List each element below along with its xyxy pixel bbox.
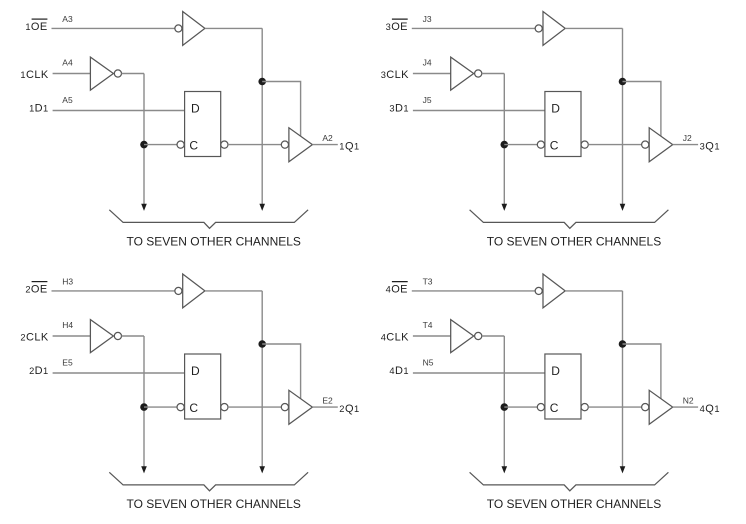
C input bubble <box>177 141 184 148</box>
C input bubble <box>537 141 544 148</box>
wire CLK junction to C input <box>144 144 177 146</box>
CLK inverter output bubble <box>114 332 121 339</box>
output buffer input bubble <box>642 404 649 411</box>
wire enable to output buffer <box>262 82 300 138</box>
svg-text:E5: E5 <box>62 357 73 367</box>
brace to seven other channels <box>470 472 669 491</box>
OE buffer (inverting input) <box>183 12 205 46</box>
svg-text:4Q1: 4Q1 <box>700 403 720 415</box>
output buffer (three-state) <box>649 390 673 424</box>
wire CLK inverter output <box>482 335 505 337</box>
svg-text:3D1: 3D1 <box>389 103 409 115</box>
wire CLK vertical bus <box>143 336 145 468</box>
wire flip-flop output to output buffer <box>228 144 281 146</box>
svg-text:1D1: 1D1 <box>29 103 49 115</box>
wire OE vertical bus <box>261 291 263 468</box>
svg-text:D: D <box>551 364 560 378</box>
CLK inverter output bubble <box>114 70 121 77</box>
CLK inverter output bubble <box>475 70 482 77</box>
arrowhead CLK bus to other channels <box>141 466 147 473</box>
flip-flop output bubble <box>221 141 228 148</box>
wire CLK junction to C input <box>504 144 537 146</box>
svg-text:T4: T4 <box>423 320 433 330</box>
svg-text:J3: J3 <box>423 14 432 24</box>
svg-text:C: C <box>189 139 198 153</box>
wire 2D1 input to D latch <box>53 372 185 374</box>
junction dot CLK/C input <box>140 141 148 149</box>
svg-text:TO SEVEN OTHER CHANNELS: TO SEVEN OTHER CHANNELS <box>487 497 661 511</box>
svg-text:TO SEVEN OTHER CHANNELS: TO SEVEN OTHER CHANNELS <box>126 497 300 511</box>
wire CLK junction to C input <box>144 406 177 408</box>
svg-text:2D1: 2D1 <box>29 365 49 377</box>
overbar on 3OE <box>392 18 408 20</box>
arrowhead OE bus to other channels <box>620 466 626 473</box>
wire enable to output buffer <box>623 344 661 400</box>
wire 4CLK input <box>413 335 451 337</box>
arrowhead OE bus to other channels <box>259 466 265 473</box>
wire CLK vertical bus <box>503 336 505 468</box>
svg-text:C: C <box>550 139 559 153</box>
flip-flop output bubble <box>581 141 588 148</box>
arrowhead CLK bus to other channels <box>502 466 508 473</box>
CLK inverter <box>451 57 474 90</box>
svg-text:2CLK: 2CLK <box>20 332 48 344</box>
wire flip-flop output to output buffer <box>588 406 641 408</box>
arrowhead CLK bus to other channels <box>141 204 147 211</box>
svg-text:H3: H3 <box>62 277 73 287</box>
junction dot CLK/C input <box>501 141 509 149</box>
junction dot CLK/C input <box>140 403 148 411</box>
junction dot OE/enable <box>258 78 266 86</box>
wire OE buffer output <box>565 290 622 292</box>
wire enable to output buffer <box>262 344 300 400</box>
svg-text:A2: A2 <box>322 133 333 143</box>
OE buffer input bubble <box>535 287 542 294</box>
wire OE buffer output <box>205 27 262 29</box>
svg-text:J4: J4 <box>423 58 432 68</box>
OE buffer (inverting input) <box>543 12 565 46</box>
wire OE buffer output <box>205 290 262 292</box>
wire 3D1 input to D latch <box>413 110 545 112</box>
wire 1OE input <box>52 27 175 29</box>
wire CLK junction to C input <box>504 406 537 408</box>
wire 1CLK input <box>53 73 91 75</box>
wire 4OE input <box>412 290 535 292</box>
arrowhead CLK bus to other channels <box>502 204 508 211</box>
svg-text:D: D <box>551 102 560 116</box>
svg-text:J2: J2 <box>683 133 692 143</box>
svg-text:1OE: 1OE <box>25 21 47 33</box>
svg-text:4OE: 4OE <box>386 284 408 296</box>
output buffer (three-state) <box>289 128 313 162</box>
CLK inverter <box>451 320 474 353</box>
svg-text:TO SEVEN OTHER CHANNELS: TO SEVEN OTHER CHANNELS <box>126 235 300 249</box>
svg-text:E2: E2 <box>322 396 333 406</box>
svg-text:3OE: 3OE <box>386 21 408 33</box>
D flip-flop body <box>545 92 581 157</box>
output buffer (three-state) <box>289 390 313 424</box>
OE buffer (inverting input) <box>183 274 205 308</box>
wire OE vertical bus <box>261 28 263 205</box>
arrowhead OE bus to other channels <box>620 204 626 211</box>
wire 2OE input <box>52 290 175 292</box>
brace to seven other channels <box>470 210 669 229</box>
wire CLK inverter output <box>122 335 145 337</box>
flip-flop output bubble <box>581 404 588 411</box>
wire CLK inverter output <box>122 73 145 75</box>
svg-text:A5: A5 <box>62 95 73 105</box>
svg-text:2Q1: 2Q1 <box>339 403 359 415</box>
wire CLK vertical bus <box>143 74 145 206</box>
output buffer (three-state) <box>649 128 673 162</box>
D flip-flop body <box>185 354 221 419</box>
wire flip-flop output to output buffer <box>228 406 281 408</box>
CLK inverter <box>90 57 113 90</box>
wire CLK vertical bus <box>503 74 505 206</box>
OE buffer input bubble <box>175 287 182 294</box>
output buffer input bubble <box>281 141 288 148</box>
svg-text:A4: A4 <box>62 58 73 68</box>
wire flip-flop output to output buffer <box>588 144 641 146</box>
svg-text:T3: T3 <box>423 277 433 287</box>
arrowhead OE bus to other channels <box>259 204 265 211</box>
brace to seven other channels <box>109 210 308 229</box>
C input bubble <box>537 404 544 411</box>
wire OE vertical bus <box>622 28 624 205</box>
svg-text:4CLK: 4CLK <box>381 332 409 344</box>
svg-text:TO SEVEN OTHER CHANNELS: TO SEVEN OTHER CHANNELS <box>487 235 661 249</box>
svg-text:2OE: 2OE <box>25 284 47 296</box>
OE buffer (inverting input) <box>543 274 565 308</box>
output buffer input bubble <box>281 404 288 411</box>
CLK inverter output bubble <box>475 332 482 339</box>
wire 1Q1 output <box>312 144 337 146</box>
wire 3OE input <box>412 27 535 29</box>
D flip-flop body <box>545 354 581 419</box>
D flip-flop body <box>185 92 221 157</box>
wire 3CLK input <box>413 73 451 75</box>
svg-text:1CLK: 1CLK <box>20 69 48 81</box>
svg-text:3CLK: 3CLK <box>381 69 409 81</box>
wire 3Q1 output <box>673 144 698 146</box>
output buffer input bubble <box>642 141 649 148</box>
wire CLK inverter output <box>482 73 505 75</box>
overbar on 2OE <box>32 281 48 283</box>
svg-text:C: C <box>550 401 559 415</box>
wire OE vertical bus <box>622 291 624 468</box>
C input bubble <box>177 404 184 411</box>
svg-text:1Q1: 1Q1 <box>339 141 359 153</box>
wire OE buffer output <box>565 27 622 29</box>
wire 4D1 input to D latch <box>413 372 545 374</box>
svg-text:D: D <box>191 364 200 378</box>
svg-text:3Q1: 3Q1 <box>700 141 720 153</box>
junction dot CLK/C input <box>501 403 509 411</box>
OE buffer input bubble <box>535 25 542 32</box>
wire 2Q1 output <box>312 406 337 408</box>
CLK inverter <box>90 320 113 353</box>
svg-text:N2: N2 <box>683 396 694 406</box>
wire 4Q1 output <box>673 406 698 408</box>
svg-text:A3: A3 <box>62 14 73 24</box>
junction dot OE/enable <box>258 340 266 348</box>
svg-text:C: C <box>189 401 198 415</box>
svg-text:H4: H4 <box>62 320 73 330</box>
svg-text:D: D <box>191 102 200 116</box>
flip-flop output bubble <box>221 404 228 411</box>
svg-text:N5: N5 <box>423 357 434 367</box>
junction dot OE/enable <box>619 78 627 86</box>
junction dot OE/enable <box>619 340 627 348</box>
svg-text:4D1: 4D1 <box>389 365 409 377</box>
brace to seven other channels <box>109 472 308 491</box>
OE buffer input bubble <box>175 25 182 32</box>
overbar on 4OE <box>392 281 408 283</box>
wire 2CLK input <box>53 335 91 337</box>
svg-text:J5: J5 <box>423 95 432 105</box>
wire 1D1 input to D latch <box>53 110 185 112</box>
overbar on 1OE <box>32 18 48 20</box>
wire enable to output buffer <box>623 82 661 138</box>
